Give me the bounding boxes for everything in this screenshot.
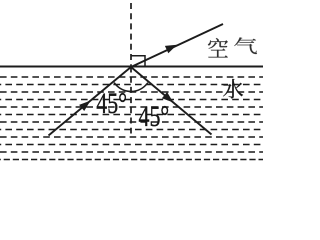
svg-text:45°: 45° — [139, 100, 170, 133]
label: air (kong) glyph — [208, 38, 228, 57]
right-angle marker between normal and surface — [131, 56, 145, 67]
refracted ray arrowhead — [165, 45, 177, 54]
svg-text:45°: 45° — [96, 87, 127, 120]
label: water (shui) glyph — [223, 79, 243, 98]
left 45-degree angle label — [96, 87, 127, 120]
incident ray — [49, 67, 132, 136]
refracted ray — [131, 24, 223, 67]
reflected ray arrowhead — [162, 92, 173, 103]
water dashed shading — [0, 77, 263, 160]
normal line (dashed) above surface — [130, 3, 132, 67]
normal line (dashed) below surface — [130, 67, 132, 134]
right 45-degree angle label — [139, 100, 170, 133]
incident ray arrowhead — [79, 101, 90, 111]
reflected ray — [131, 67, 212, 135]
angle arc below surface — [114, 83, 148, 92]
label: air (qi) glyph — [234, 37, 257, 54]
water surface line — [0, 66, 263, 68]
